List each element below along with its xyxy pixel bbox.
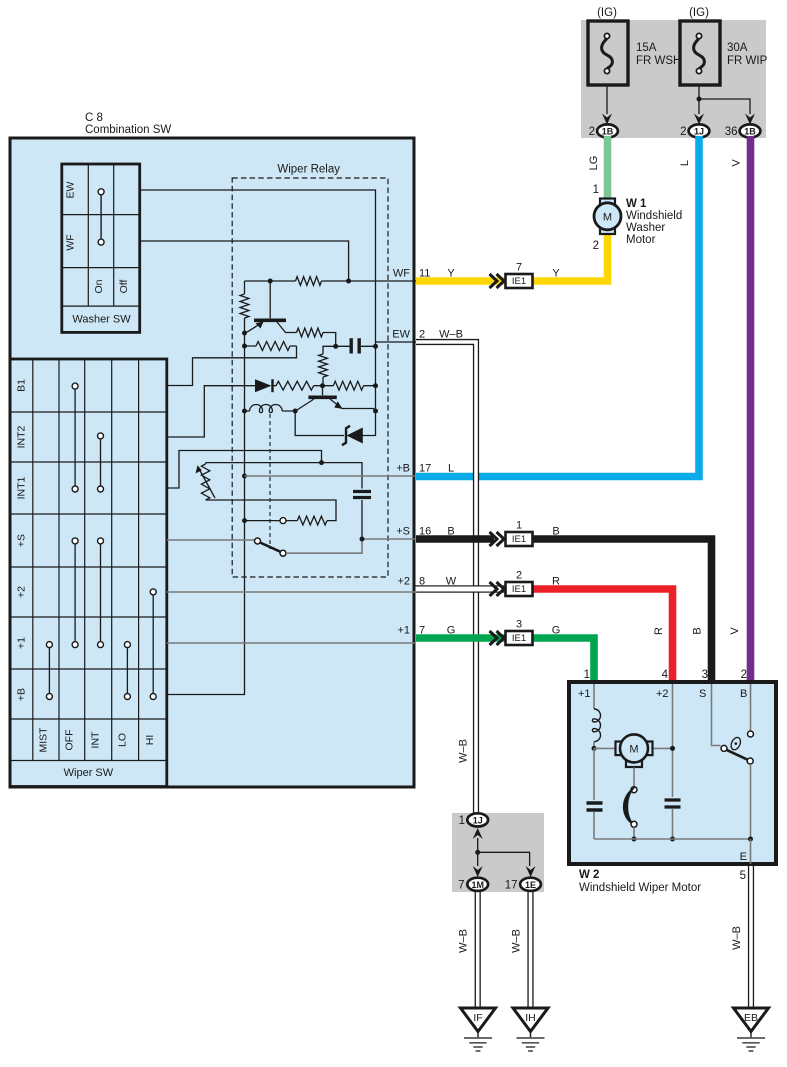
- svg-text:2: 2: [589, 126, 595, 138]
- svg-text:17: 17: [505, 880, 518, 892]
- svg-text:W 1: W 1: [626, 198, 647, 210]
- wire fuse F2 to junction and connectors: [699, 85, 750, 114]
- transistor Q2 NPN: [322, 386, 324, 396]
- svg-text:+2: +2: [397, 576, 410, 588]
- contact column at x=100.5: [100, 436, 102, 489]
- svg-text:Washer: Washer: [626, 222, 665, 234]
- svg-text:W–B: W–B: [439, 329, 463, 341]
- junction block background: [452, 813, 544, 892]
- connector 2 1J: [689, 124, 710, 137]
- svg-text:G: G: [552, 625, 561, 637]
- mechanical link dashed: [269, 414, 271, 549]
- svg-text:L: L: [679, 160, 691, 166]
- transistor Q1 PNP: [269, 281, 271, 318]
- resistor B1 to +B rail: [245, 342, 297, 351]
- variable resistor VR1: [201, 463, 209, 500]
- svg-text:B: B: [552, 526, 559, 538]
- svg-text:2: 2: [593, 240, 599, 252]
- svg-text:LG: LG: [588, 156, 600, 171]
- splice chevrons and connector IE1 pin 2: [490, 582, 505, 596]
- svg-text:7: 7: [516, 262, 522, 274]
- splice chevrons and connector IE1 pin 3: [490, 631, 505, 645]
- svg-text:OFF: OFF: [63, 730, 75, 751]
- W2 B branch: [750, 684, 752, 731]
- fuse F2 30A FR WIP: [680, 21, 720, 85]
- svg-text:IE1: IE1: [512, 276, 526, 287]
- wire R IE1 to wiper motor +2: [530, 589, 673, 683]
- wire B1 row to resistor: [167, 346, 297, 386]
- wire W-B 1M to ground IF: [475, 890, 481, 1008]
- wire EW pin line: [375, 339, 377, 412]
- contact column at x=127.4: [126, 645, 128, 697]
- svg-text:+B: +B: [396, 463, 410, 475]
- svg-text:R: R: [653, 627, 665, 635]
- wire B +S pin 16 to wiper motor S: [416, 535, 494, 543]
- contact column at x=75.1: [74, 386, 76, 489]
- svg-text:G: G: [447, 625, 456, 637]
- svg-text:1E: 1E: [525, 880, 536, 890]
- connector 2 1B: [597, 124, 618, 137]
- wiper SW table: [10, 359, 167, 787]
- resistor timing: [286, 516, 327, 525]
- svg-text:(IG): (IG): [689, 7, 709, 19]
- wire INT1 row to timing node: [167, 451, 322, 489]
- wire +2 row to pin 8: [167, 591, 416, 593]
- svg-text:IE1: IE1: [512, 584, 526, 595]
- washer motor W1: [594, 199, 621, 235]
- svg-text:7: 7: [458, 880, 464, 892]
- wire washer EW row to relay: [141, 190, 376, 339]
- wire W-B 1E to ground IH: [527, 890, 533, 1008]
- svg-text:Washer SW: Washer SW: [72, 314, 131, 326]
- wire washer WF row to WF line: [141, 241, 349, 281]
- svg-text:L: L: [448, 463, 454, 475]
- svg-text:Wiper Relay: Wiper Relay: [277, 164, 340, 176]
- svg-text:FR WIP: FR WIP: [727, 55, 768, 67]
- svg-text:Combination SW: Combination SW: [85, 124, 171, 136]
- svg-text:HI: HI: [144, 735, 156, 746]
- resistor +B rail vertical: [167, 281, 249, 695]
- svg-text:EW: EW: [392, 329, 410, 341]
- relay switch SW1: [167, 539, 255, 541]
- wire LG fuse to washer motor: [604, 136, 612, 199]
- svg-text:W: W: [446, 576, 457, 588]
- svg-text:2: 2: [741, 669, 747, 681]
- svg-text:EB: EB: [744, 1012, 758, 1024]
- washer SW table grid: [62, 164, 140, 332]
- wire emitter to EW rail: [373, 409, 375, 412]
- svg-text:3: 3: [516, 619, 522, 631]
- svg-text:S: S: [699, 688, 706, 700]
- svg-text:1B: 1B: [602, 127, 614, 137]
- svg-text:1: 1: [516, 520, 522, 532]
- zener diode ZD1: [295, 411, 375, 436]
- svg-text:B: B: [447, 526, 454, 538]
- svg-text:Off: Off: [118, 280, 130, 294]
- wiper motor W2 box: [569, 682, 776, 864]
- contact column at x=49.4: [48, 645, 50, 697]
- svg-text:7: 7: [419, 625, 425, 637]
- svg-text:1: 1: [584, 669, 590, 681]
- svg-text:IE1: IE1: [512, 633, 526, 644]
- svg-text:IH: IH: [525, 1012, 536, 1024]
- wire WF output line: [245, 280, 417, 282]
- connector 7 1M: [473, 866, 483, 877]
- resistor Q1 collector: [297, 328, 336, 346]
- svg-text:1J: 1J: [473, 815, 483, 825]
- svg-text:4: 4: [662, 669, 669, 681]
- svg-text:+1: +1: [397, 625, 410, 637]
- wiper relay dashed box: [232, 178, 388, 577]
- svg-text:W 2: W 2: [579, 869, 599, 881]
- wire +B pin line: [245, 475, 417, 477]
- svg-text:36: 36: [725, 126, 738, 138]
- resistor diode to Q2 base: [274, 381, 334, 390]
- svg-text:W–B: W–B: [511, 929, 523, 953]
- svg-text:B: B: [692, 627, 704, 634]
- svg-text:Y: Y: [447, 268, 455, 280]
- svg-text:On: On: [93, 279, 105, 293]
- svg-text:+1: +1: [578, 688, 591, 700]
- svg-text:Wiper SW: Wiper SW: [64, 767, 114, 779]
- svg-text:1: 1: [459, 815, 465, 827]
- svg-text:2: 2: [419, 329, 425, 341]
- wire Y washer motor to WF pin 11: [416, 233, 608, 281]
- wire L fuse 1J to +B pin 17: [416, 136, 699, 477]
- svg-text:Windshield Wiper Motor: Windshield Wiper Motor: [579, 882, 701, 894]
- svg-text:W–B: W–B: [458, 739, 470, 763]
- relay coil L1: [245, 405, 296, 413]
- svg-text:B: B: [740, 688, 747, 700]
- svg-text:17: 17: [419, 463, 431, 475]
- svg-text:W–B: W–B: [731, 926, 743, 950]
- svg-text:11: 11: [419, 268, 430, 280]
- svg-text:Motor: Motor: [626, 234, 656, 246]
- svg-text:W–B: W–B: [458, 929, 470, 953]
- svg-text:M: M: [629, 744, 638, 756]
- wire fuse F1 to connector 1B: [606, 85, 608, 114]
- W2 capacitor on +1 branch: [593, 748, 595, 800]
- svg-text:30A: 30A: [727, 42, 748, 54]
- resistor Q2 base to EW rail: [333, 381, 375, 390]
- svg-text:+B: +B: [16, 688, 28, 701]
- W2 +2 branch with capacitor: [672, 684, 674, 797]
- svg-text:INT2: INT2: [16, 425, 28, 448]
- wire VR bottom loop to timing resistor: [206, 500, 336, 521]
- wire INT2 row to diode: [167, 386, 255, 437]
- ground IF: [461, 1008, 496, 1032]
- ground IH: [513, 1008, 548, 1032]
- svg-text:R: R: [552, 576, 560, 588]
- svg-text:+2: +2: [16, 586, 28, 598]
- svg-text:5: 5: [740, 870, 746, 882]
- svg-text:+1: +1: [16, 637, 28, 649]
- wire VR top to capacitor C2: [206, 463, 362, 489]
- capacitor C1: [336, 345, 376, 347]
- svg-text:(IG): (IG): [597, 7, 617, 19]
- svg-text:+S: +S: [16, 534, 28, 547]
- ground EB: [734, 1008, 769, 1032]
- splice chevrons and connector IE1 pin 1: [490, 532, 505, 546]
- wire V fuse 1B to wiper motor B: [747, 136, 755, 683]
- fuse block background: [581, 20, 766, 138]
- wire +1 row to pin 7: [167, 642, 416, 644]
- W2 E pin: [750, 839, 752, 864]
- svg-text:3: 3: [702, 669, 708, 681]
- svg-text:2: 2: [680, 126, 686, 138]
- diode D1: [255, 379, 272, 392]
- connector 17 1E: [526, 866, 536, 877]
- svg-text:V: V: [729, 627, 741, 635]
- svg-text:IF: IF: [473, 1012, 482, 1024]
- wire W +2 pin 8 to IE1: [414, 586, 519, 592]
- connector 1 1J: [473, 828, 483, 839]
- connector 36 1B: [740, 124, 761, 137]
- svg-text:15A: 15A: [636, 42, 657, 54]
- resistor WF line: [296, 277, 322, 286]
- resistor vertical to Q2 base: [319, 346, 336, 385]
- svg-text:16: 16: [419, 526, 431, 538]
- washer SW contacts: [100, 192, 102, 242]
- wire G +1 pin 7 to wiper motor +1: [416, 638, 594, 683]
- svg-text:+2: +2: [656, 688, 669, 700]
- svg-text:IE1: IE1: [512, 534, 526, 545]
- svg-text:Windshield: Windshield: [626, 210, 682, 222]
- svg-text:2: 2: [516, 570, 522, 582]
- contact column at x=153.2: [152, 592, 154, 697]
- svg-text:1J: 1J: [694, 127, 704, 137]
- svg-text:FR WSH: FR WSH: [636, 55, 681, 67]
- capacitor C2: [353, 492, 371, 498]
- W2 cam contact: [633, 768, 635, 787]
- svg-text:M: M: [603, 212, 612, 224]
- svg-text:INT1: INT1: [16, 476, 28, 499]
- W2 +1 branch with coil: [593, 684, 595, 709]
- fuse F1 15A FR WSH: [588, 21, 628, 85]
- svg-text:C 8: C 8: [85, 112, 103, 124]
- W2 motor M: [594, 747, 616, 749]
- svg-text:INT: INT: [90, 731, 102, 749]
- combination switch C8 box: [10, 138, 414, 787]
- svg-text:E: E: [740, 851, 747, 863]
- svg-text:B1: B1: [16, 379, 28, 392]
- svg-text:1: 1: [593, 184, 599, 196]
- W2 bottom rail: [594, 838, 751, 840]
- splice chevrons and connector IE1 pin 7: [490, 274, 505, 288]
- svg-text:EW: EW: [65, 181, 77, 198]
- wire W-B EW pin 2 down to 1J: [416, 342, 476, 814]
- svg-text:LO: LO: [117, 733, 129, 747]
- svg-text:Y: Y: [552, 268, 560, 280]
- svg-text:1M: 1M: [471, 880, 484, 890]
- svg-text:WF: WF: [65, 234, 77, 250]
- svg-text:1B: 1B: [744, 127, 756, 137]
- wire W-B wiper motor E to ground EB: [748, 866, 754, 1008]
- W2 park switch: [712, 684, 721, 746]
- svg-text:+S: +S: [396, 526, 410, 538]
- svg-text:8: 8: [419, 576, 425, 588]
- svg-text:V: V: [731, 159, 743, 167]
- svg-text:WF: WF: [393, 268, 410, 280]
- svg-text:MIST: MIST: [37, 727, 49, 753]
